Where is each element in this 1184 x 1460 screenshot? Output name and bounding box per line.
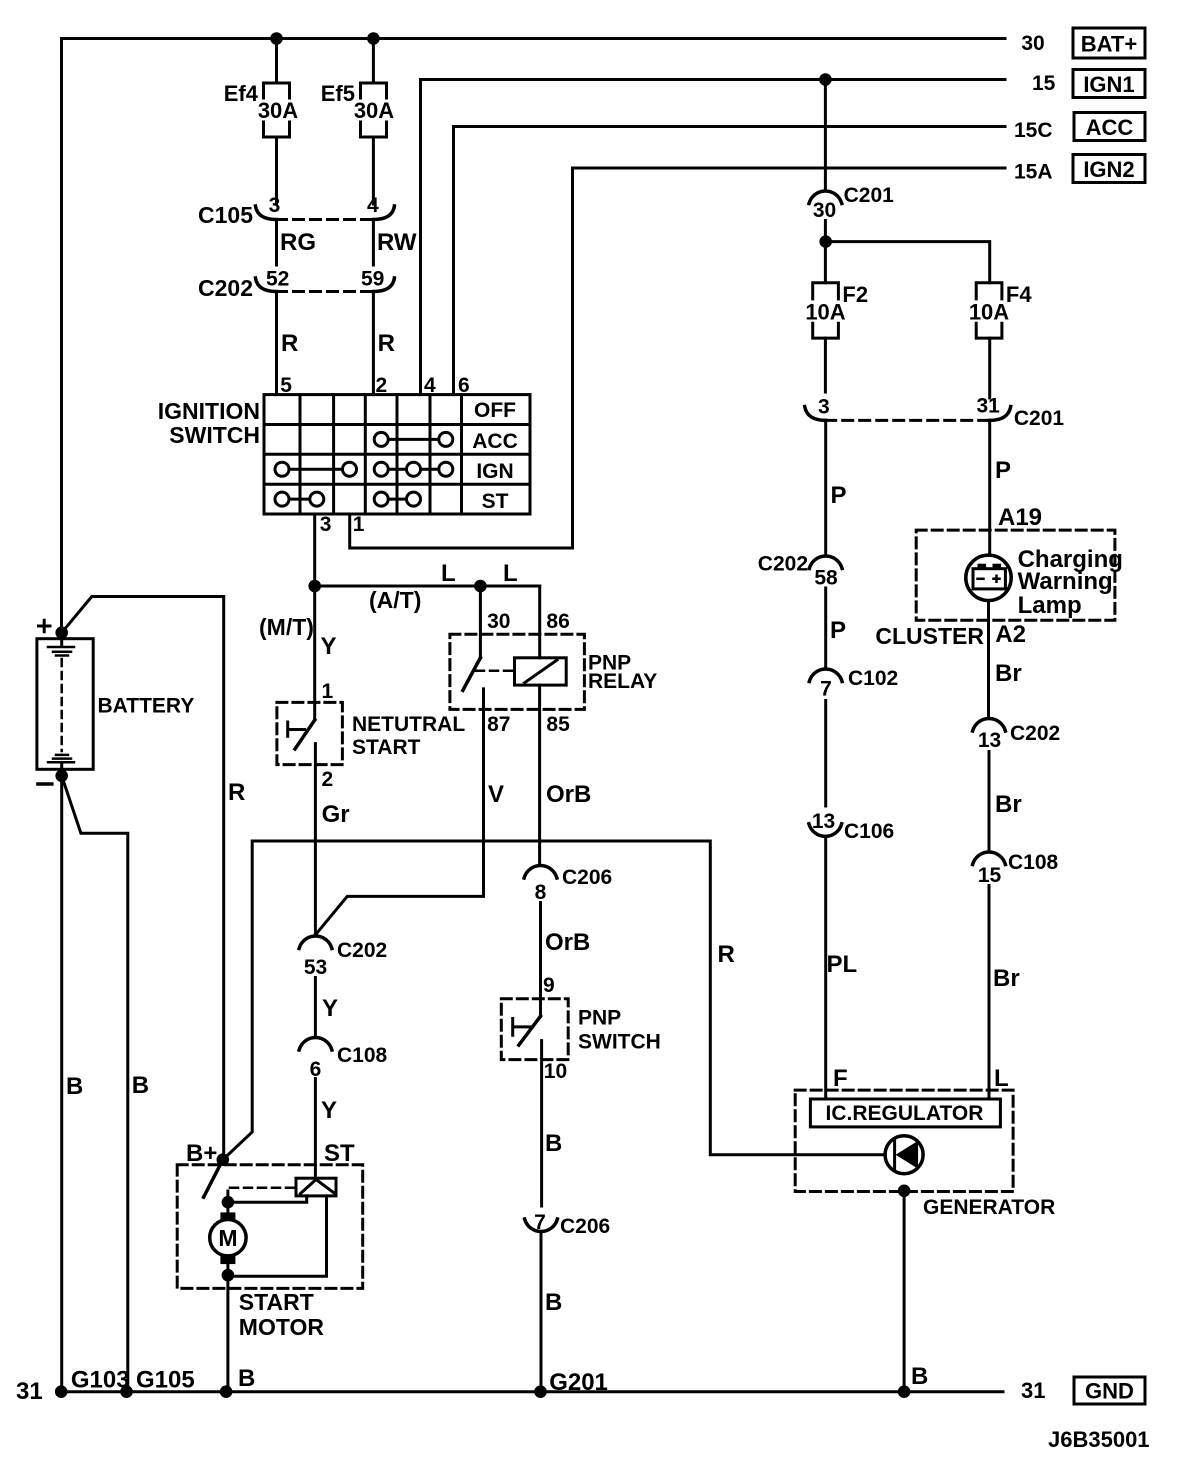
wire OrB relay pin 85 to C206 pin 8 (540, 685, 592, 864)
svg-text:IC.REGULATOR: IC.REGULATOR (826, 1102, 984, 1125)
svg-text:31: 31 (1021, 1378, 1045, 1403)
fuse F2 10A (805, 282, 868, 338)
svg-text:58: 58 (814, 567, 838, 590)
wire P F4 branch to cluster A19 (990, 422, 1042, 555)
wire P C202-58 to C102-7 (826, 588, 846, 668)
label 31 left (16, 1378, 43, 1405)
wire bus30 to fuse Ef5 (372, 39, 375, 84)
wire Y M/T branch (315, 586, 337, 720)
junction dot generator ground (898, 1185, 911, 1198)
svg-text:3: 3 (818, 396, 830, 419)
junction dot battery positive (55, 626, 68, 639)
svg-text:G201: G201 (549, 1369, 608, 1396)
svg-text:(M/T): (M/T) (259, 614, 314, 640)
svg-text:C202: C202 (198, 275, 253, 301)
wire battery positive to R wire down to start motor B+ (62, 597, 224, 1159)
fuse F4 10A (969, 282, 1033, 338)
svg-text:C201: C201 (844, 184, 895, 207)
svg-text:C202: C202 (1010, 722, 1060, 745)
svg-text:C202: C202 (337, 939, 387, 962)
svg-text:Gr: Gr (322, 801, 350, 828)
svg-text:MOTOR: MOTOR (239, 1314, 325, 1340)
neutral start switch pin 1 label (322, 680, 334, 703)
svg-text:F2: F2 (842, 282, 868, 307)
connector C202 pins 52-59 (198, 268, 394, 302)
connector C108 pin 15 (973, 851, 1059, 887)
svg-text:C108: C108 (337, 1044, 388, 1067)
svg-text:ST: ST (324, 1140, 355, 1167)
svg-text:Br: Br (995, 660, 1022, 687)
battery minus sign (38, 782, 52, 786)
ignition switch contact links (282, 439, 446, 499)
svg-text:15: 15 (1032, 72, 1056, 95)
wire R generator output to start motor B+ (223, 841, 885, 1160)
wire Y C202-53 to C108-6 (315, 978, 338, 1037)
wire bus 30 BAT+ with left drop to battery (62, 39, 1006, 632)
switch PNP SWITCH (501, 999, 661, 1060)
fuse Ef5 30A (321, 81, 395, 137)
svg-text:C108: C108 (1008, 851, 1059, 874)
svg-text:F4: F4 (1006, 282, 1032, 307)
svg-text:P: P (995, 457, 1011, 484)
wire P F2 branch (826, 420, 847, 555)
svg-text:J6B35001: J6B35001 (1048, 1427, 1150, 1452)
junction dot generator ground at bus (898, 1385, 911, 1398)
svg-text:GENERATOR: GENERATOR (923, 1196, 1055, 1219)
label (M/T) (259, 614, 314, 640)
svg-text:15A: 15A (1014, 161, 1053, 184)
label 31 right (1021, 1378, 1045, 1403)
svg-text:30: 30 (1021, 32, 1044, 55)
svg-text:2: 2 (322, 768, 334, 791)
svg-text:(A/T): (A/T) (369, 587, 421, 613)
svg-text:IGNITION: IGNITION (158, 398, 260, 424)
fuse Ef4 30A (224, 81, 299, 137)
generator GENERATOR box (795, 1090, 1055, 1219)
wire branch to fuse F4 (826, 242, 990, 283)
svg-text:OrB: OrB (545, 929, 590, 956)
svg-text:BATTERY: BATTERY (98, 695, 195, 718)
wire RG (277, 222, 317, 265)
svg-text:C206: C206 (560, 1215, 610, 1238)
svg-text:A2: A2 (995, 621, 1026, 648)
svg-text:31: 31 (16, 1378, 43, 1405)
ignition switch contacts IGN row (275, 462, 453, 476)
wire lamp to A2 Br (989, 601, 1026, 718)
relay PNP RELAY box (450, 634, 657, 709)
wire C201-30 to fuse junction (824, 221, 827, 283)
label G201 (549, 1369, 608, 1396)
PNP switch pin 10 label (544, 1060, 567, 1083)
wire fuse F2 to C201 pin 3 (824, 338, 827, 392)
svg-text:ST: ST (482, 490, 509, 513)
svg-text:10: 10 (544, 1060, 567, 1083)
svg-text:P: P (830, 617, 846, 644)
svg-text:30A: 30A (258, 98, 298, 123)
relay switch blade (463, 658, 481, 691)
node IGN2 box (1073, 155, 1145, 183)
junction dot bus30 at Ef5 (367, 32, 380, 45)
wire fuse Ef5 to connector C105 pin 4 (372, 137, 375, 204)
svg-text:B: B (238, 1365, 255, 1392)
junction dot motor top (222, 1196, 235, 1209)
svg-text:52: 52 (266, 268, 289, 291)
wire label R (228, 779, 245, 806)
svg-text:SWITCH: SWITCH (578, 1031, 661, 1054)
label G103 (71, 1367, 130, 1394)
ignition switch contacts ACC row (374, 432, 453, 446)
ignition switch contacts ST row (275, 492, 421, 506)
svg-text:Br: Br (995, 791, 1022, 818)
wire label L (441, 560, 456, 587)
connector C108 pin 6 (299, 1037, 387, 1081)
wire label L second (503, 560, 518, 587)
connector C206 pin 7 (525, 1211, 611, 1238)
relay pin 86 label (546, 610, 569, 633)
switch NETUTRAL START (277, 702, 465, 764)
wire relay pin 30 (479, 586, 482, 658)
junction dot G201 (534, 1385, 547, 1398)
wire fuse F4 to C201 pin 31 (988, 338, 991, 398)
junction dot G103 (55, 1385, 68, 1398)
wire Y ST to start motor solenoid (315, 1079, 355, 1180)
svg-text:59: 59 (361, 268, 384, 291)
svg-text:10A: 10A (969, 300, 1009, 325)
wire L (A/T) horizontal to PNP relay (315, 585, 540, 588)
svg-text:31: 31 (977, 395, 1001, 418)
svg-text:F: F (833, 1065, 848, 1092)
svg-text:87: 87 (487, 713, 510, 736)
relay coil (515, 658, 567, 685)
node 15 label (1032, 72, 1056, 95)
wire R to pin 5 (277, 294, 299, 395)
svg-text:Y: Y (321, 1097, 337, 1124)
battery plus sign (39, 620, 51, 631)
wire bus 15C ACC with riser to ignition switch pin 6 (454, 127, 1006, 395)
svg-text:Warning: Warning (1018, 568, 1113, 595)
svg-text:Ef5: Ef5 (321, 81, 355, 106)
svg-text:15: 15 (978, 864, 1002, 887)
svg-text:R: R (281, 330, 298, 357)
svg-text:1: 1 (353, 513, 365, 536)
svg-text:B: B (132, 1072, 149, 1099)
junction dot bus30 at Ef4 (270, 32, 283, 45)
connector C102 pin 7 (809, 667, 898, 701)
connector C106 pin 13 (809, 810, 894, 843)
wire Br C108-15 to generator L (989, 886, 1020, 1100)
svg-text:START: START (352, 736, 421, 759)
wire bus 31 ground (58, 1390, 1003, 1393)
svg-text:A19: A19 (998, 504, 1042, 531)
svg-text:RELAY: RELAY (588, 670, 657, 693)
label J6B35001 (1048, 1427, 1150, 1452)
svg-text:Y: Y (322, 995, 338, 1022)
wire ignition switch pin 3 down to node (313, 514, 316, 586)
svg-text:C201: C201 (1014, 407, 1065, 430)
svg-text:53: 53 (304, 956, 327, 979)
lamp Charging Warning Lamp (966, 546, 1123, 619)
svg-text:IGN1: IGN1 (1083, 72, 1134, 97)
wire label R generator (718, 941, 735, 968)
battery BATTERY (37, 633, 194, 776)
node 15A label (1014, 161, 1053, 184)
svg-text:C206: C206 (562, 866, 612, 889)
relay mechanical link dashes (476, 669, 515, 672)
svg-text:Br: Br (993, 965, 1020, 992)
wire label B start motor ground (238, 1365, 255, 1392)
relay pin 85 label (546, 713, 570, 736)
junction dot start motor B+ (217, 1153, 230, 1166)
wire B PNP switch pin 10 to C206 pin 7 (542, 1041, 563, 1206)
svg-text:L: L (503, 560, 518, 587)
junction dot IGN1 tap (819, 73, 832, 86)
svg-text:B: B (545, 1130, 562, 1157)
svg-text:13: 13 (978, 729, 1001, 752)
label G105 (136, 1367, 195, 1394)
svg-text:B: B (545, 1289, 562, 1316)
wire OrB C206-8 to PNP switch pin 9 (541, 903, 591, 1017)
connector C201 pin 30 (809, 184, 894, 222)
svg-text:Y: Y (321, 633, 337, 660)
neutral start switch pin 2 label (322, 768, 334, 791)
motor START MOTOR (177, 1160, 363, 1392)
svg-text:1: 1 (322, 680, 334, 703)
svg-text:IGN2: IGN2 (1083, 157, 1134, 182)
svg-text:IGN: IGN (476, 460, 513, 483)
svg-text:8: 8 (535, 881, 547, 904)
svg-text:OFF: OFF (474, 399, 516, 422)
svg-text:PL: PL (827, 951, 858, 978)
wire bus 15 IGN1 with riser to ignition switch pin 4 (421, 80, 1006, 395)
ignition switch pin numbers 5 2 4 6 (280, 374, 469, 397)
connector C201 pins 3-31 (805, 395, 1065, 431)
svg-text:R: R (228, 779, 245, 806)
svg-text:3: 3 (320, 513, 332, 536)
wire Br C202-13 to C108-15 (989, 752, 1022, 852)
relay pin 30 label (487, 610, 510, 633)
junction dot M/T A/T split (308, 580, 321, 593)
PNP switch pin 9 label (543, 974, 555, 997)
junction dot battery negative (55, 770, 68, 783)
junction dot fuse branch (819, 235, 832, 248)
svg-text:C202: C202 (758, 553, 808, 576)
svg-text:B+: B+ (186, 1140, 217, 1167)
svg-text:L: L (994, 1065, 1009, 1092)
wire bus 15A IGN2 with riser to ignition switch pin 1 (350, 168, 1005, 548)
svg-text:85: 85 (546, 713, 570, 736)
svg-text:7: 7 (534, 1211, 546, 1234)
svg-text:L: L (441, 560, 456, 587)
svg-text:B: B (911, 1363, 928, 1390)
wire B generator to ground (904, 1191, 928, 1392)
svg-text:CLUSTER: CLUSTER (875, 623, 984, 649)
connector C105 pins 3-4 (198, 194, 394, 228)
svg-text:R: R (718, 941, 735, 968)
node GND box (1074, 1377, 1145, 1404)
svg-text:RG: RG (280, 229, 316, 256)
connector C206 pin 8 (524, 865, 612, 904)
svg-text:15C: 15C (1014, 119, 1053, 142)
svg-text:4: 4 (367, 194, 379, 217)
svg-text:P: P (831, 482, 847, 509)
svg-text:30: 30 (813, 199, 836, 222)
svg-text:SWITCH: SWITCH (169, 422, 260, 448)
ignition switch row labels (472, 399, 518, 513)
wire C102-7 to C106-13 (824, 701, 827, 807)
wire PL C106-13 to generator F (826, 838, 857, 1099)
ignition switch label (158, 398, 260, 448)
junction dot G105 (120, 1385, 133, 1398)
svg-text:86: 86 (546, 610, 569, 633)
node BAT+ box (1073, 28, 1145, 58)
wire Gr neutral start pin 2 to C202 pin 53 (315, 744, 349, 935)
node IGN1 box (1073, 70, 1145, 98)
wire RW (373, 222, 416, 265)
wire fuse Ef4 to connector C105 pin 3 (275, 137, 278, 204)
ignition switch bottom pin numbers 3 1 (320, 513, 365, 536)
wire label B G103 (66, 1073, 83, 1100)
wire battery negative to ground G103 (60, 776, 63, 1392)
diode generator (885, 1136, 923, 1174)
label (A/T) (369, 587, 421, 613)
svg-text:30: 30 (487, 610, 510, 633)
connector C202 pin 58 (758, 553, 842, 590)
svg-text:OrB: OrB (546, 781, 591, 808)
svg-text:C102: C102 (848, 667, 898, 690)
junction dot motor bottom (222, 1269, 235, 1282)
connector C202 pin 13 (973, 718, 1061, 752)
wire R to pin 2 (373, 294, 395, 395)
svg-text:R: R (378, 330, 395, 357)
svg-text:GND: GND (1085, 1379, 1134, 1404)
svg-text:START: START (239, 1289, 314, 1315)
wire IGN1 to C201 pin 30 (824, 80, 827, 191)
cluster CLUSTER box (875, 530, 1115, 649)
node ACC box (1074, 113, 1145, 141)
wire B battery negative to ground G105 (62, 776, 128, 1392)
junction dot start motor ground (220, 1385, 233, 1398)
svg-text:13: 13 (812, 810, 835, 833)
node 15C label (1014, 119, 1053, 142)
wire V relay pin 87 to C202 pin 53 (317, 689, 505, 934)
svg-text:G105: G105 (136, 1367, 195, 1394)
svg-text:RW: RW (377, 229, 417, 256)
svg-text:Lamp: Lamp (1018, 592, 1082, 619)
svg-text:C105: C105 (198, 202, 253, 228)
relay pin 87 label (487, 713, 510, 736)
svg-text:3: 3 (269, 194, 281, 217)
svg-text:ACC: ACC (472, 430, 518, 453)
svg-text:7: 7 (820, 678, 832, 701)
svg-text:10A: 10A (805, 300, 845, 325)
svg-text:PNP: PNP (578, 1007, 621, 1030)
wire B C206-7 to ground G201 (541, 1233, 562, 1392)
svg-text:NETUTRAL: NETUTRAL (352, 713, 465, 736)
connector C202 pin 53 (299, 936, 387, 979)
svg-text:ACC: ACC (1086, 115, 1134, 140)
svg-text:B: B (66, 1073, 83, 1100)
svg-text:V: V (488, 781, 504, 808)
start motor B+ label (186, 1140, 217, 1167)
svg-text:M: M (218, 1225, 237, 1251)
wire label B G105 (132, 1072, 149, 1099)
svg-text:Ef4: Ef4 (224, 81, 259, 106)
node 30 label (1021, 32, 1044, 55)
svg-text:BAT+: BAT+ (1081, 32, 1137, 57)
wire bus30 to fuse Ef4 (275, 39, 278, 84)
ignition switch table (264, 395, 530, 514)
svg-text:9: 9 (543, 974, 555, 997)
junction dot at relay pin 30 branch (474, 580, 487, 593)
svg-text:30A: 30A (354, 98, 394, 123)
regulator IC.REGULATOR (810, 1099, 1000, 1127)
svg-text:C106: C106 (844, 820, 894, 843)
wire relay pin 86 from A/T L (538, 586, 541, 658)
